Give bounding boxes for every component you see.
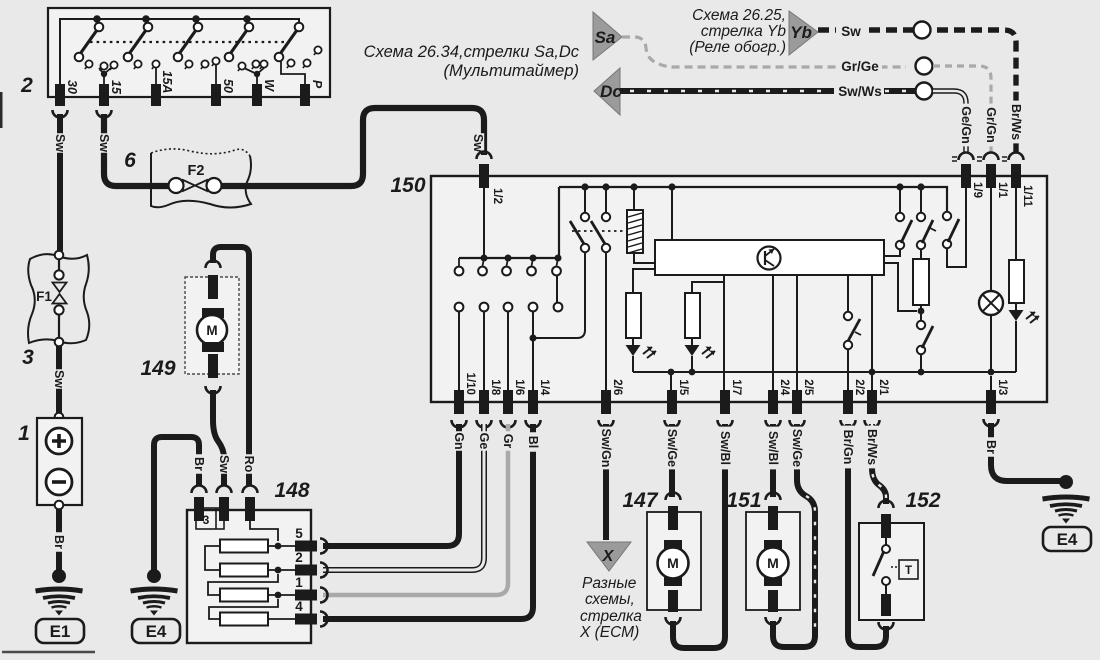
svg-text:Gr: Gr [501, 434, 515, 449]
svg-text:X: X [602, 548, 615, 565]
svg-text:3: 3 [203, 513, 210, 527]
svg-text:Sw: Sw [52, 370, 66, 388]
svg-text:4: 4 [295, 599, 303, 614]
svg-text:148: 148 [274, 479, 309, 502]
svg-text:1/3: 1/3 [996, 379, 1008, 395]
svg-text:Sw/Ws: Sw/Ws [838, 84, 882, 99]
svg-text:Sw: Sw [841, 24, 861, 39]
svg-text:M: M [206, 323, 217, 338]
svg-text:2: 2 [20, 74, 33, 97]
svg-text:Gn: Gn [452, 432, 466, 449]
svg-text:Ge/Gn: Ge/Gn [959, 106, 973, 144]
svg-text:Sw/Ge: Sw/Ge [665, 429, 679, 467]
svg-text:1/5: 1/5 [677, 379, 689, 396]
svg-text:149: 149 [140, 357, 175, 380]
svg-text:5: 5 [295, 526, 303, 541]
svg-text:3: 3 [22, 346, 34, 369]
svg-text:15A: 15A [160, 71, 174, 94]
svg-text:2/2: 2/2 [853, 379, 865, 395]
svg-text:стрелка: стрелка [580, 608, 642, 625]
svg-text:147: 147 [622, 489, 658, 512]
svg-text:15: 15 [109, 80, 123, 95]
svg-text:E4: E4 [1057, 530, 1078, 549]
svg-text:1/11: 1/11 [1021, 185, 1033, 207]
svg-text:Br: Br [192, 457, 206, 471]
svg-text:1/10: 1/10 [464, 373, 476, 395]
svg-text:T: T [905, 565, 912, 577]
svg-text:схемы,: схемы, [585, 591, 635, 608]
svg-text:1/1: 1/1 [996, 182, 1008, 199]
svg-text:Sw/Bl: Sw/Bl [718, 431, 732, 465]
svg-text:Br: Br [52, 535, 66, 549]
svg-text:1/9: 1/9 [971, 182, 983, 198]
svg-text:Sa: Sa [595, 28, 616, 47]
svg-text:1/8: 1/8 [489, 379, 501, 396]
svg-text:Yb: Yb [790, 23, 812, 42]
svg-text:Br/Gn: Br/Gn [841, 430, 855, 465]
svg-text:Br/Ws: Br/Ws [865, 429, 879, 465]
svg-text:P: P [310, 80, 324, 89]
svg-text:Ge: Ge [477, 433, 491, 450]
svg-text:F1: F1 [36, 289, 52, 304]
svg-text:150: 150 [390, 174, 425, 197]
svg-text:6: 6 [124, 149, 136, 172]
svg-text:2/1: 2/1 [877, 379, 889, 396]
svg-text:2/6: 2/6 [611, 379, 623, 395]
svg-text:Sw: Sw [471, 134, 485, 152]
svg-text:Sw: Sw [217, 455, 231, 473]
svg-text:151: 151 [726, 489, 761, 512]
svg-text:(Мультитаймер): (Мультитаймер) [444, 62, 579, 80]
svg-text:Схема 26.25,: Схема 26.25, [692, 7, 786, 24]
svg-text:Br: Br [984, 440, 998, 454]
svg-text:Gr/Ge: Gr/Ge [841, 59, 879, 74]
svg-text:1/4: 1/4 [538, 379, 550, 396]
svg-text:Sw/Gn: Sw/Gn [599, 429, 613, 468]
svg-text:F2: F2 [188, 163, 205, 179]
svg-text:W: W [262, 79, 276, 92]
svg-text:30: 30 [65, 80, 79, 94]
svg-text:стрелка Yb: стрелка Yb [701, 23, 787, 40]
svg-text:(Реле обогр.): (Реле обогр.) [689, 39, 786, 56]
svg-text:50: 50 [221, 79, 235, 93]
svg-text:M: M [767, 555, 779, 571]
svg-text:1/2: 1/2 [491, 188, 503, 204]
svg-text:Схема 26.34,стрелки Sa,Dс: Схема 26.34,стрелки Sa,Dс [364, 43, 580, 61]
svg-text:2/4: 2/4 [778, 379, 790, 396]
svg-text:Sw/Ge: Sw/Ge [790, 429, 804, 467]
svg-text:Ro: Ro [242, 456, 256, 473]
svg-text:Sw: Sw [53, 134, 67, 152]
svg-text:Bl: Bl [526, 436, 540, 449]
svg-text:1/6: 1/6 [513, 379, 525, 395]
svg-text:152: 152 [905, 489, 940, 512]
svg-text:Sw: Sw [97, 134, 111, 152]
svg-text:1: 1 [295, 575, 303, 590]
svg-text:X (ЕСМ): X (ЕСМ) [579, 624, 639, 641]
svg-text:2/5: 2/5 [802, 379, 814, 396]
svg-text:1/7: 1/7 [730, 379, 742, 395]
svg-text:M: M [667, 555, 679, 571]
svg-text:E1: E1 [50, 622, 71, 641]
svg-text:Br/Ws: Br/Ws [1009, 104, 1023, 140]
svg-text:E4: E4 [146, 622, 167, 641]
svg-text:2: 2 [295, 550, 303, 565]
svg-text:Sw/Bl: Sw/Bl [766, 431, 780, 465]
svg-text:Gr/Gn: Gr/Gn [984, 107, 998, 142]
svg-text:1: 1 [18, 422, 30, 445]
svg-text:Разные: Разные [582, 575, 637, 592]
svg-text:Dc: Dc [600, 82, 622, 101]
